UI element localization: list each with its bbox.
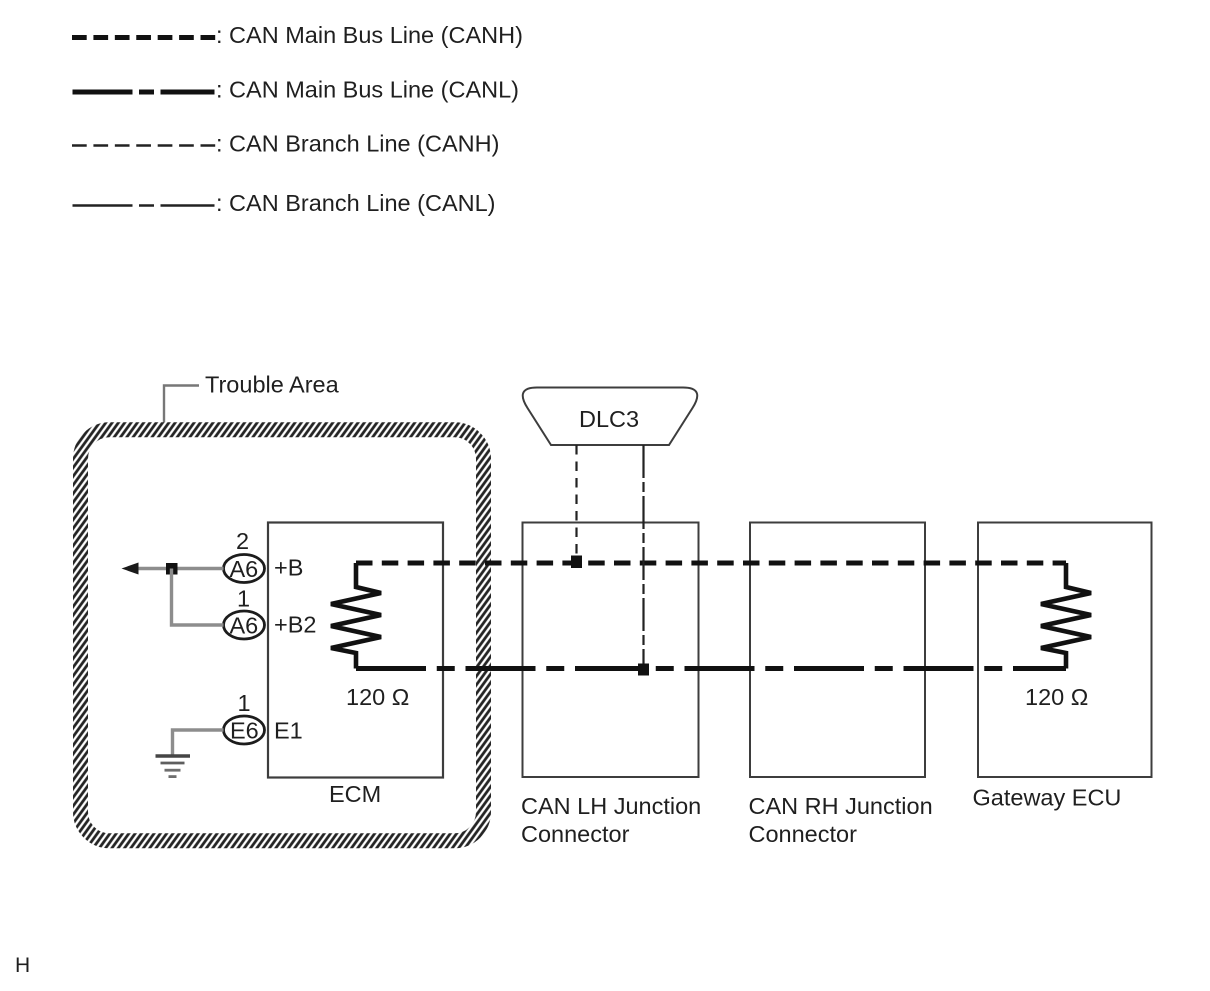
wire from node down to A6 pin1 xyxy=(172,569,224,626)
junction dot CANL branch xyxy=(638,664,649,676)
svg-text:Connector: Connector xyxy=(749,821,858,847)
svg-text:A6: A6 xyxy=(230,613,259,639)
svg-text:: CAN Main Bus Line (CANL): : CAN Main Bus Line (CANL) xyxy=(216,77,519,103)
CAN branch line CANH from DLC3 (thin dashed) xyxy=(575,445,577,563)
svg-text:: CAN Branch Line (CANH): : CAN Branch Line (CANH) xyxy=(216,131,499,157)
svg-text:1: 1 xyxy=(237,586,250,612)
legend CAN Branch Line (CANL) sample xyxy=(73,204,215,206)
CAN RH Junction Connector box xyxy=(750,523,925,778)
svg-text:Trouble Area: Trouble Area xyxy=(205,372,340,398)
ECM box xyxy=(268,523,443,778)
wire from A6 pin2 to node xyxy=(136,567,224,570)
svg-text:1: 1 xyxy=(238,690,251,716)
ground symbol xyxy=(156,756,191,777)
svg-text:H: H xyxy=(15,954,30,977)
trouble area leader line xyxy=(164,386,199,429)
Gateway ECU box xyxy=(978,523,1152,778)
wire from E6 to ground xyxy=(173,730,224,755)
svg-text:120 Ω: 120 Ω xyxy=(1025,684,1088,710)
svg-text:ECM: ECM xyxy=(329,781,381,807)
resistor R-Gateway 120 ohm xyxy=(1041,563,1091,669)
legend CAN Branch Line (CANH) sample xyxy=(72,144,215,146)
connector oval A6 pin 2 xyxy=(224,555,265,583)
trouble area hatched border xyxy=(81,430,484,841)
resistor R-ECM 120 ohm xyxy=(331,563,381,669)
junction dot CANH branch xyxy=(571,556,582,569)
CAN LH Junction Connector box xyxy=(523,523,699,778)
svg-text:A6: A6 xyxy=(230,556,259,582)
connector oval E6 pin 1 xyxy=(224,716,265,744)
CAN main bus line CANH (thick dashed) xyxy=(356,561,1066,566)
svg-text:CAN RH Junction: CAN RH Junction xyxy=(749,793,933,819)
legend CAN Main Bus Line (CANH) sample xyxy=(72,35,215,40)
connector oval A6 pin 1 xyxy=(224,611,265,639)
CAN branch line CANL from DLC3 (thin long-short dashed) xyxy=(642,445,644,669)
svg-text:+B: +B xyxy=(274,555,303,581)
arrow head pointing left xyxy=(122,563,139,575)
svg-text:: CAN Main Bus Line (CANH): : CAN Main Bus Line (CANH) xyxy=(216,22,523,48)
svg-text:+B2: +B2 xyxy=(274,612,316,638)
svg-text:Gateway ECU: Gateway ECU xyxy=(973,785,1122,811)
CAN main bus line CANL (thick long-short dashed) xyxy=(356,666,1066,671)
svg-text:: CAN Branch Line (CANL): : CAN Branch Line (CANL) xyxy=(216,190,496,216)
svg-text:Connector: Connector xyxy=(521,821,630,847)
DLC3 connector shape xyxy=(523,388,698,446)
svg-text:120 Ω: 120 Ω xyxy=(346,684,409,710)
svg-text:E6: E6 xyxy=(230,718,259,744)
svg-text:DLC3: DLC3 xyxy=(579,406,639,432)
legend CAN Main Bus Line (CANL) sample xyxy=(73,90,215,95)
svg-text:CAN LH Junction: CAN LH Junction xyxy=(521,793,701,819)
svg-text:2: 2 xyxy=(236,528,249,554)
svg-text:E1: E1 xyxy=(274,718,303,744)
junction node dot xyxy=(166,563,178,575)
